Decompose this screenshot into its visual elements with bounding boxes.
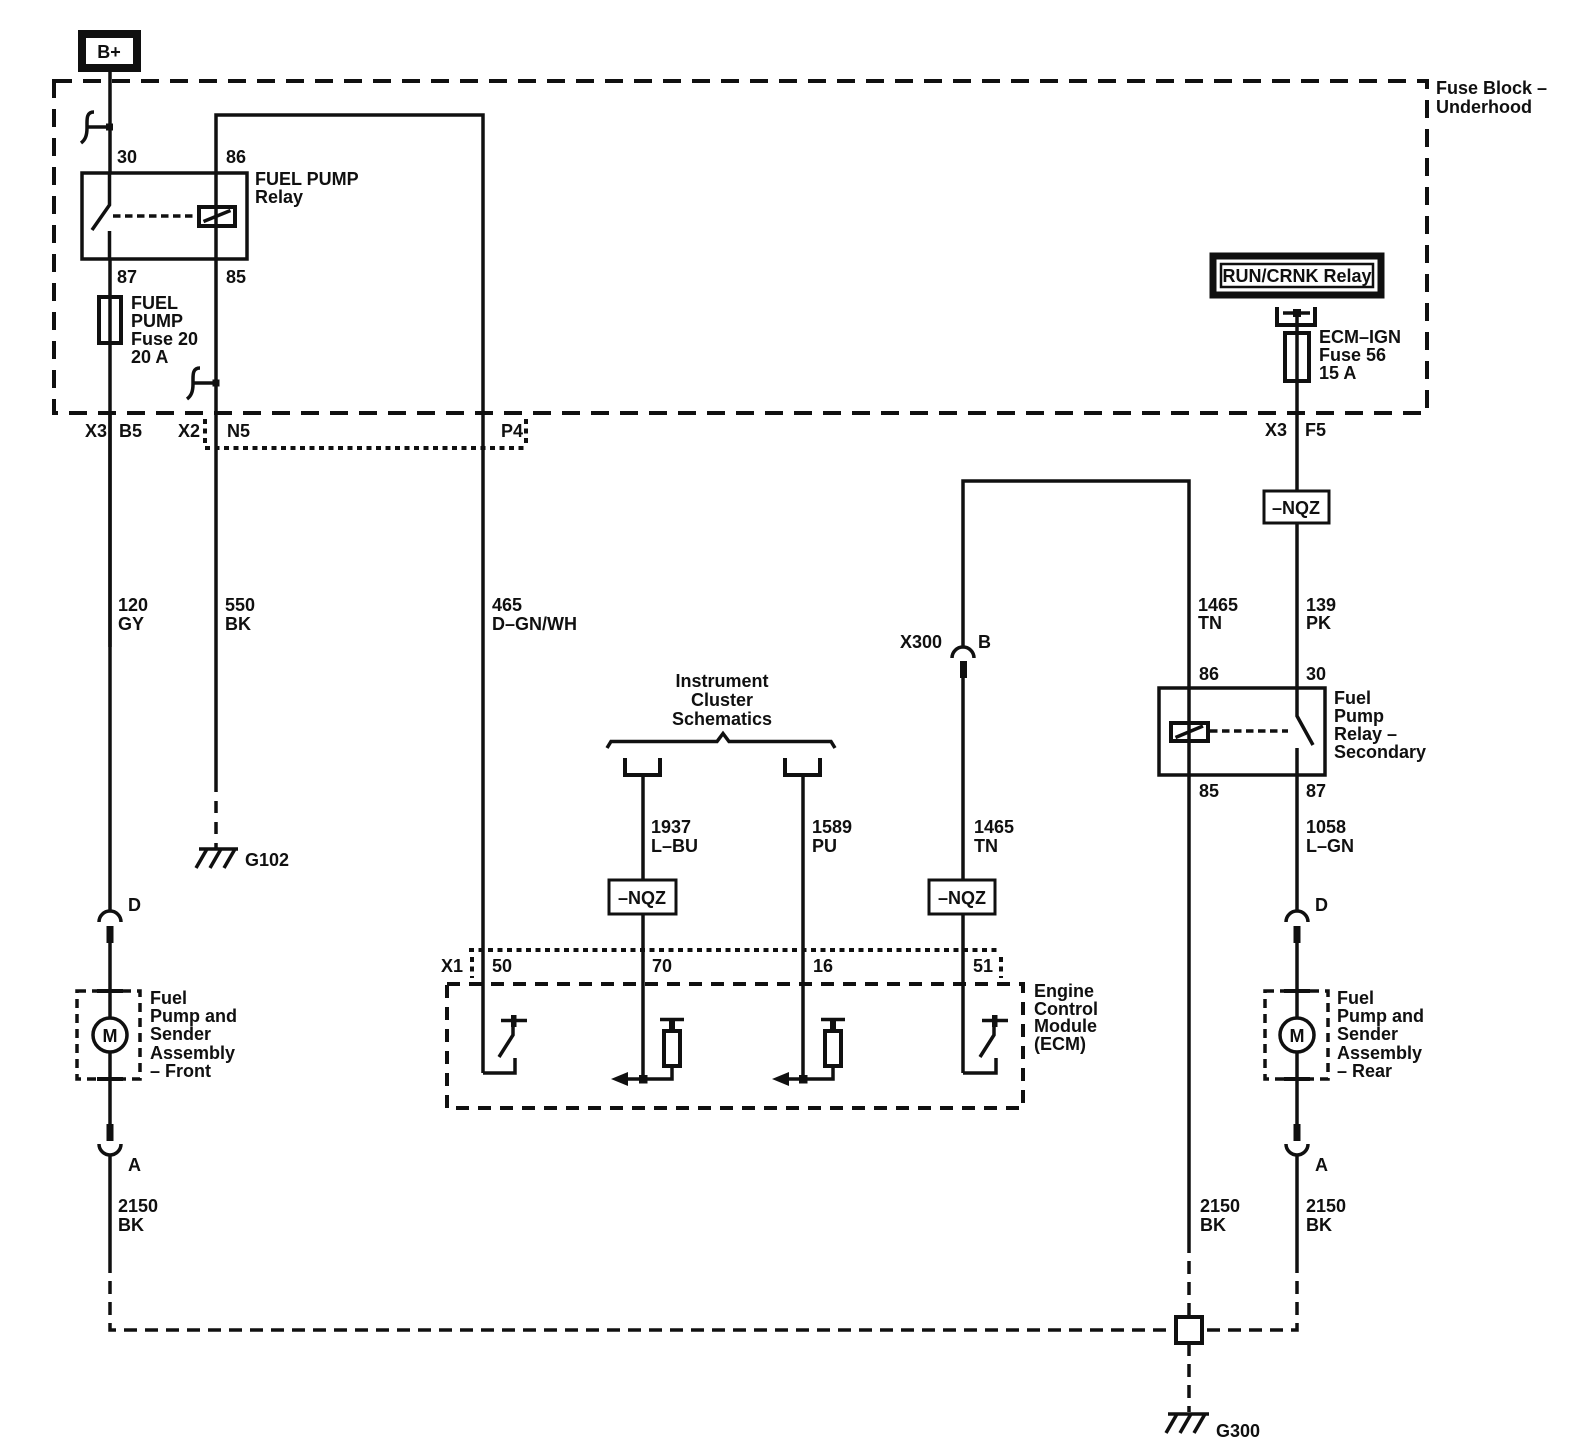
svg-text:87: 87	[117, 267, 137, 287]
svg-text:120: 120	[118, 595, 148, 615]
svg-text:A: A	[128, 1155, 141, 1175]
svg-text:16: 16	[813, 956, 833, 976]
svg-text:Instrument: Instrument	[675, 671, 768, 691]
svg-text:X1: X1	[441, 956, 463, 976]
ECM sense resistor at pin 16	[803, 1066, 833, 1079]
svg-text:TN: TN	[974, 836, 998, 856]
svg-text:D–GN/WH: D–GN/WH	[492, 614, 577, 634]
wire relay K1 pin 86 vertical	[214, 173, 218, 259]
relay K1 switch blade pin30-87	[92, 173, 110, 230]
ground G102	[199, 847, 238, 851]
wire 120 GY	[108, 413, 112, 647]
RUN/CRNK Relay box	[1213, 256, 1381, 295]
svg-text:L–GN: L–GN	[1306, 836, 1354, 856]
splice option box -NQZ on 1465	[929, 880, 995, 914]
relay K1 coil	[199, 207, 235, 226]
svg-text:Pump and: Pump and	[150, 1006, 237, 1026]
svg-text:Secondary: Secondary	[1334, 742, 1426, 762]
wire 1465 TN from ECM 51 to X300 to relay	[961, 914, 965, 950]
wire junction to G300	[1187, 1343, 1191, 1412]
splice option box -NQZ on 139 PK	[1264, 491, 1329, 523]
svg-text:Fuel: Fuel	[150, 988, 187, 1008]
svg-text:BK: BK	[1306, 1215, 1332, 1235]
svg-text:P4: P4	[501, 421, 523, 441]
ground wire dashed left	[110, 1260, 1176, 1330]
svg-text:465: 465	[492, 595, 522, 615]
svg-text:– Front: – Front	[150, 1061, 211, 1081]
svg-text:X300: X300	[900, 632, 942, 652]
svg-text:2150: 2150	[1200, 1196, 1240, 1216]
svg-text:Assembly: Assembly	[150, 1043, 235, 1063]
svg-text:Fuse Block –: Fuse Block –	[1436, 78, 1547, 98]
svg-text:Engine: Engine	[1034, 981, 1094, 1001]
svg-text:BK: BK	[118, 1215, 144, 1235]
ECM sense resistor at pin 70	[643, 1066, 672, 1079]
svg-text:F5: F5	[1305, 420, 1326, 440]
svg-text:87: 87	[1306, 781, 1326, 801]
svg-text:X2: X2	[178, 421, 200, 441]
svg-text:–NQZ: –NQZ	[938, 888, 986, 908]
svg-text:15 A: 15 A	[1319, 363, 1356, 383]
svg-text:Cluster: Cluster	[691, 690, 753, 710]
connector X2 dotted outline	[203, 419, 207, 447]
svg-text:A: A	[1315, 1155, 1328, 1175]
svg-text:PUMP: PUMP	[131, 311, 183, 331]
svg-text:Fuse 20: Fuse 20	[131, 329, 198, 349]
fuse F1 FUEL PUMP Fuse 20	[99, 297, 121, 343]
motor M rear	[1295, 991, 1299, 1018]
svg-text:51: 51	[973, 956, 993, 976]
svg-text:PK: PK	[1306, 613, 1331, 633]
svg-text:B+: B+	[97, 42, 121, 62]
svg-text:FUEL: FUEL	[131, 293, 178, 313]
svg-text:N5: N5	[227, 421, 250, 441]
svg-text:D: D	[128, 895, 141, 915]
wire relay K1 pin 86 up and over to P4	[216, 115, 483, 413]
svg-text:1937: 1937	[651, 817, 691, 837]
svg-text:Pump: Pump	[1334, 706, 1384, 726]
svg-text:Sender: Sender	[1337, 1024, 1398, 1044]
ECM connector row X1 dotted	[469, 948, 1001, 952]
svg-text:Pump and: Pump and	[1337, 1006, 1424, 1026]
wire 465 D-GN/WH	[481, 413, 485, 1073]
splice option box -NQZ on 1937	[609, 880, 676, 914]
wire relay secondary 85 to ground 2150 BK	[1187, 775, 1191, 1240]
fuel pump relay secondary box	[1159, 688, 1325, 775]
terminal clip at N5	[187, 368, 200, 399]
svg-text:Fuel: Fuel	[1334, 688, 1371, 708]
svg-text:Sender: Sender	[150, 1024, 211, 1044]
wire 550 BK	[214, 413, 218, 780]
svg-text:B5: B5	[119, 421, 142, 441]
terminal clip on B+ feed	[81, 112, 94, 143]
wire relay secondary pin 86-85 vertical	[1187, 688, 1191, 775]
svg-text:TN: TN	[1198, 613, 1222, 633]
fuse block underhood dashed enclosure	[54, 81, 1427, 413]
svg-text:30: 30	[117, 147, 137, 167]
svg-text:Assembly: Assembly	[1337, 1043, 1422, 1063]
wire RUN/CRNK to fuse F2	[1295, 310, 1299, 413]
motor M front	[108, 991, 112, 1018]
svg-text:50: 50	[492, 956, 512, 976]
wire relay K1 pin 85 to N5	[214, 259, 218, 413]
inline connector D right	[1286, 911, 1308, 922]
svg-text:86: 86	[1199, 664, 1219, 684]
ECM driver switch at pin 50	[483, 1058, 515, 1073]
svg-text:G300: G300	[1216, 1421, 1260, 1441]
svg-text:D: D	[1315, 895, 1328, 915]
svg-text:(ECM): (ECM)	[1034, 1034, 1086, 1054]
inline connector A left	[108, 1079, 112, 1124]
inline connector A right	[1295, 1079, 1299, 1124]
wire B+ to relay pin 30	[108, 72, 112, 173]
svg-text:2150: 2150	[118, 1196, 158, 1216]
svg-text:FUEL PUMP: FUEL PUMP	[255, 169, 359, 189]
ground junction G300 splice block	[1176, 1317, 1202, 1343]
fuel pump sender assembly rear dashed box	[1265, 991, 1328, 1079]
svg-text:550: 550	[225, 595, 255, 615]
wire pin 87 to fuse F1	[108, 259, 112, 413]
svg-text:1589: 1589	[812, 817, 852, 837]
svg-text:M: M	[1290, 1026, 1305, 1046]
svg-text:Schematics: Schematics	[672, 709, 772, 729]
svg-text:Module: Module	[1034, 1016, 1097, 1036]
svg-text:20 A: 20 A	[131, 347, 168, 367]
wire 1937 L-BU	[641, 775, 645, 880]
relay secondary switch blade	[1297, 688, 1313, 745]
fuse F2 ECM-IGN Fuse 56	[1285, 333, 1309, 381]
svg-text:Relay: Relay	[255, 187, 303, 207]
svg-text:2150: 2150	[1306, 1196, 1346, 1216]
svg-text:Relay –: Relay –	[1334, 724, 1397, 744]
svg-text:Fuel: Fuel	[1337, 988, 1374, 1008]
instrument cluster connector cup left	[625, 758, 660, 775]
svg-text:85: 85	[1199, 781, 1219, 801]
svg-text:1465: 1465	[974, 817, 1014, 837]
ECM dashed enclosure	[447, 984, 1023, 1108]
relay secondary coil link dashed	[1210, 729, 1288, 733]
wire 139 PK	[1295, 413, 1299, 491]
relay secondary coil	[1171, 723, 1208, 741]
svg-text:B: B	[978, 632, 991, 652]
svg-text:86: 86	[226, 147, 246, 167]
svg-text:70: 70	[652, 956, 672, 976]
ground G300	[1168, 1412, 1209, 1416]
ground wire dashed right	[1202, 1260, 1297, 1330]
svg-text:M: M	[103, 1026, 118, 1046]
svg-text:RUN/CRNK Relay: RUN/CRNK Relay	[1222, 266, 1371, 286]
svg-text:Underhood: Underhood	[1436, 97, 1532, 117]
svg-text:L–BU: L–BU	[651, 836, 698, 856]
svg-text:X3: X3	[85, 421, 107, 441]
svg-text:ECM–IGN: ECM–IGN	[1319, 327, 1401, 347]
svg-text:1465: 1465	[1198, 595, 1238, 615]
svg-text:PU: PU	[812, 836, 837, 856]
svg-text:85: 85	[226, 267, 246, 287]
connector X300	[952, 647, 974, 658]
instrument cluster brace	[607, 734, 835, 749]
inline connector D left	[108, 413, 112, 911]
relay K1 coil link dashed	[113, 214, 199, 218]
svg-text:GY: GY	[118, 614, 144, 634]
svg-text:BK: BK	[1200, 1215, 1226, 1235]
instrument cluster connector cup right	[785, 758, 820, 775]
wire 1589 PU	[801, 775, 805, 1079]
relay K1 FUEL PUMP Relay box	[82, 173, 247, 259]
battery feed symbol B+	[82, 34, 137, 68]
svg-text:–NQZ: –NQZ	[1272, 498, 1320, 518]
ECM driver switch at pin 51	[961, 950, 965, 1073]
connector cup below RUN/CRNK relay	[1277, 307, 1315, 325]
wire 1058 L-GN	[1295, 775, 1299, 911]
svg-text:G102: G102	[245, 850, 289, 870]
fuel pump sender assembly front dashed box	[77, 991, 140, 1079]
svg-text:BK: BK	[225, 614, 251, 634]
svg-text:– Rear: – Rear	[1337, 1061, 1392, 1081]
svg-text:1058: 1058	[1306, 817, 1346, 837]
svg-text:Fuse 56: Fuse 56	[1319, 345, 1386, 365]
svg-text:X3: X3	[1265, 420, 1287, 440]
svg-text:–NQZ: –NQZ	[618, 888, 666, 908]
svg-text:139: 139	[1306, 595, 1336, 615]
svg-text:30: 30	[1306, 664, 1326, 684]
